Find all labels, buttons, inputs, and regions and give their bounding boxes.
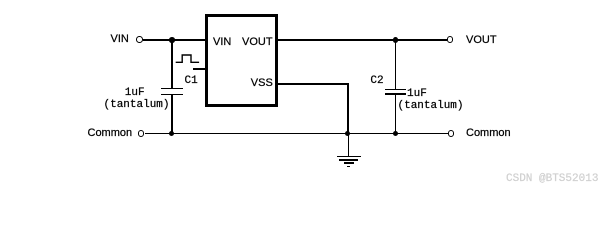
terminal Common right: [448, 130, 454, 136]
terminal VOUT: [447, 36, 454, 43]
node Common left label: [88, 128, 133, 139]
node VOUT label: [466, 35, 497, 46]
capacitor C2 top plate: [385, 89, 406, 91]
capacitor C1 label: [185, 76, 198, 87]
capacitor C2 value 1uF: [407, 89, 427, 100]
junction C1 to rail: [169, 131, 175, 137]
wire VIN to regulator input: [143, 39, 206, 41]
ground bar 4: [347, 166, 350, 167]
capacitor C1 value (tantalum): [104, 100, 170, 111]
watermark: [506, 174, 598, 185]
junction input node: [169, 37, 175, 43]
terminal VIN: [136, 36, 143, 43]
junction ground to rail: [345, 131, 351, 137]
wire C2 top lead: [395, 40, 397, 89]
ground bar 2: [339, 159, 357, 161]
pin label VOUT: [242, 37, 273, 48]
regulator U1 box: [205, 14, 278, 107]
capacitor C1 top plate: [161, 88, 184, 90]
pin label VIN: [213, 37, 231, 48]
capacitor C1 bottom plate: [161, 94, 184, 96]
wire VOUT to output terminal: [277, 39, 447, 41]
ground bar 1: [337, 156, 361, 158]
common rail wire: [145, 133, 448, 135]
pin label VSS: [251, 78, 273, 89]
node Common right label: [466, 128, 511, 139]
pin stub into regulator: [193, 68, 207, 70]
ground bar 3: [344, 162, 354, 163]
terminal Common left: [138, 130, 145, 137]
junction output node: [393, 37, 399, 43]
wire VSS vertical to ground rail: [347, 83, 349, 133]
node VIN label: [111, 34, 129, 45]
capacitor C2 value (tantalum): [398, 101, 464, 112]
wire C2 bottom lead: [395, 95, 397, 133]
wire C1 bottom lead: [171, 95, 173, 133]
pulse waveform symbol: [174, 53, 202, 65]
capacitor C1 value 1uF: [125, 88, 145, 99]
wire VSS horizontal: [277, 83, 349, 85]
wire C1 top lead: [171, 40, 173, 88]
ground stem: [348, 133, 350, 156]
junction C2 to rail: [393, 131, 399, 137]
capacitor C2 label: [370, 76, 383, 87]
capacitor C2 bottom plate: [385, 93, 406, 95]
